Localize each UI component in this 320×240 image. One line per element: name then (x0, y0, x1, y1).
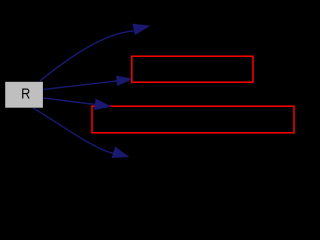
edge R->node1 (wire) (44, 81, 118, 90)
node2 (red box, lower) (92, 106, 294, 133)
svg-text:R: R (21, 85, 30, 102)
edge R->bottom node (wire) (33, 108, 115, 154)
edge R->node2 (wire) (44, 98, 96, 104)
node R (central, gray) (5, 82, 43, 108)
arrowhead into node1 (116, 76, 132, 86)
arrowhead bottom edge (112, 147, 128, 158)
arrowhead top edge (133, 24, 150, 35)
edge R->top node (wire) (40, 31, 134, 81)
node1 (red box, upper) (132, 56, 253, 82)
arrowhead into node2 (94, 99, 110, 110)
